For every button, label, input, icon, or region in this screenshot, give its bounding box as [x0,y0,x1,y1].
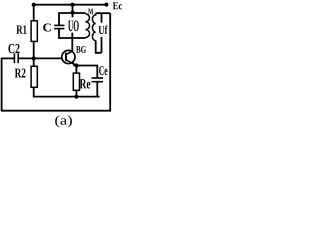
resistor R1 [31,21,37,42]
label Uf [99,26,108,35]
wire tank left branch upper [58,13,60,25]
inductor L1 primary coil [85,14,89,38]
node Re ground junction [74,95,78,99]
wire R1 bottom to base node [33,41,35,58]
wire top supply rail [34,4,107,6]
label M [88,9,93,15]
label (a) [55,115,72,127]
inductor L2 secondary coil [92,13,95,40]
node tank top rail junction [70,3,74,7]
label Ec [113,2,122,9]
wire Ce bottom to ground rail [96,82,98,97]
transistor BG [62,50,75,63]
wire tank top drop [72,5,74,13]
wire secondary top to right border [96,12,111,14]
label R1 [16,25,26,33]
wire tank left branch lower [58,29,60,38]
wire bottom feedback border [1,110,111,112]
wire right feedback border [109,13,111,111]
node Ec supply terminal [104,3,108,7]
wire Re bottom to ground rail [75,90,77,96]
label BG [76,46,86,53]
wire input left to C2 [2,57,14,59]
wire collector from tank bottom [71,33,73,51]
wire secondary bottom foot [96,41,102,53]
wire emitter to Re [75,66,77,74]
capacitor Ce [92,77,104,79]
wire Uf arrow upper stub [101,13,103,22]
label C2 [8,44,19,53]
label Ce [99,66,107,75]
wire base node to R2 [33,58,35,66]
wire left feedback border [1,58,3,111]
label Re [80,79,91,88]
capacitor C2 [13,53,15,63]
resistor Re [73,73,79,90]
wire U0 arrow upper stub [72,13,74,17]
node base junction [32,56,36,60]
node top-left junction [32,3,36,7]
wire emitter to Ce [76,66,97,78]
wire R1 top [33,5,35,21]
label C [43,24,51,32]
wire tank bottom line [58,37,85,39]
node emitter junction [74,63,78,67]
capacitor C [54,24,64,26]
label U0 [68,21,79,32]
wire Uf arrow lower segment [101,37,103,53]
node tank top junction [71,11,75,15]
resistor R2 [31,66,37,87]
wire R2 bottom to ground rail [34,87,100,96]
label R2 [15,69,26,78]
wire C2 to base node to transistor base [19,57,62,59]
wire tank top line [58,12,85,14]
